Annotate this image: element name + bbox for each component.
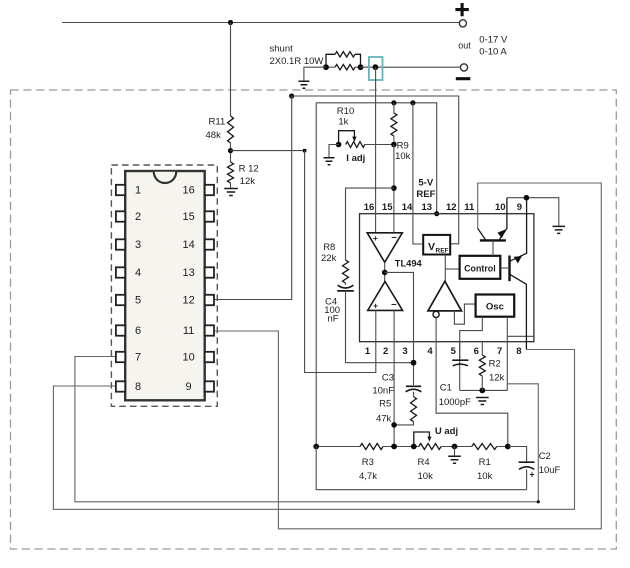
wire amp output to pin 3: [385, 272, 414, 341]
terminal + output: [455, 3, 468, 16]
wire comparator to pin 4: [436, 318, 508, 447]
svg-text:7: 7: [497, 346, 502, 357]
node R9 top: [391, 100, 396, 105]
wire amp2 + to pin 1: [305, 151, 376, 373]
svg-text:6: 6: [474, 346, 479, 357]
wire comp tap to R8: [346, 188, 394, 260]
node amp outputs: [382, 270, 388, 276]
node ground rail: [479, 388, 485, 394]
terminal - output: [460, 64, 467, 71]
svg-text:REF: REF: [416, 189, 435, 200]
svg-text:+: +: [373, 300, 378, 310]
wire bottom return rail: [316, 447, 526, 490]
DIP pin 10 box: [205, 352, 214, 362]
svg-text:R1: R1: [479, 457, 491, 468]
resistor R2: [481, 342, 483, 355]
comparator dead-time: [428, 281, 462, 311]
svg-text:+: +: [373, 233, 378, 243]
node chain left: [313, 444, 319, 450]
svg-text:10k: 10k: [418, 471, 434, 482]
node shunt right: [358, 64, 364, 70]
node R10 left: [336, 142, 342, 148]
svg-text:13: 13: [182, 267, 194, 279]
node divider junction: [228, 148, 233, 153]
svg-text:4: 4: [427, 346, 433, 357]
svg-text:16: 16: [182, 185, 194, 197]
wire amp1 output: [384, 262, 386, 281]
svg-text:C1: C1: [440, 383, 452, 394]
svg-text:14: 14: [402, 202, 413, 213]
svg-text:13: 13: [422, 202, 433, 213]
wire R11 to junction: [230, 143, 232, 162]
wire from top rail to R11: [230, 23, 232, 117]
DIP pin 16 box: [205, 185, 214, 195]
DIP pin 8 box: [116, 381, 125, 391]
svg-text:15: 15: [382, 202, 393, 213]
svg-text:TL494: TL494: [395, 259, 423, 269]
wire ground rail C1 R2: [460, 389, 508, 391]
wire Osc to pin 5: [460, 317, 483, 359]
svg-text:10: 10: [182, 352, 194, 364]
wire Q2 collector to pin 8: [510, 274, 527, 349]
potentiometer R10: [346, 142, 365, 148]
svg-text:5: 5: [451, 346, 457, 357]
wire pin 3 down: [413, 342, 415, 385]
oscillator Osc block: [476, 295, 515, 317]
wiper of R4: [414, 432, 430, 447]
transistor Q1: [480, 239, 506, 241]
wire VREF bottom to Control and comparator: [444, 255, 446, 282]
DIP16 dashed outline: [111, 165, 217, 406]
wire V+ rail to pin 12: [292, 96, 459, 244]
DIP pin 13 box: [205, 267, 214, 277]
DIP pin 15 box: [205, 211, 214, 221]
DIP pin 12 box: [205, 295, 214, 305]
svg-text:1: 1: [365, 346, 371, 357]
ground at pin 7: [476, 398, 489, 405]
ground at emitters: [553, 226, 566, 233]
DIP pin 7 box: [116, 352, 125, 362]
wire bottom chain: [316, 446, 360, 448]
svg-text:48k: 48k: [206, 130, 222, 141]
svg-text:R9: R9: [397, 140, 409, 151]
resistor R9: [393, 103, 395, 113]
svg-text:Control: Control: [464, 264, 496, 274]
svg-text:4,7k: 4,7k: [359, 471, 377, 482]
node compensation tap: [391, 185, 397, 191]
svg-text:12k: 12k: [489, 373, 505, 384]
wire emitters to ground: [507, 198, 559, 226]
regulator VREF box: [423, 235, 450, 255]
capacitor C4: [345, 283, 347, 285]
node R9 / R10: [391, 142, 397, 148]
DIP16 IC body: [125, 171, 205, 400]
DIP pin 11 box: [205, 325, 214, 335]
wire R5 to pin 2 line: [394, 422, 413, 425]
svg-text:12: 12: [182, 295, 194, 307]
wire R10 to ground: [329, 145, 339, 158]
wire V+ to DIP pin 12: [214, 96, 292, 300]
node pin 3 / C4: [411, 360, 417, 366]
resistor shunt lower 0.1R: [326, 66, 335, 68]
wire R12 to ground: [230, 183, 232, 188]
svg-text:4: 4: [135, 267, 141, 279]
wire Vref rail (pin 13): [316, 103, 437, 214]
svg-text:10nF: 10nF: [372, 386, 394, 397]
svg-text:5-V: 5-V: [418, 178, 433, 189]
svg-text:R4: R4: [418, 457, 430, 468]
resistor R11: [228, 116, 234, 143]
wire shunt left to ground: [304, 67, 326, 80]
node R5 / pin2: [391, 422, 397, 428]
wire pin 14 to VREF: [413, 103, 423, 244]
svg-text:shunt: shunt: [270, 44, 294, 55]
wire Q1 base to Control: [492, 240, 494, 255]
node V+ rail corner: [289, 93, 294, 98]
svg-text:R5: R5: [379, 399, 391, 410]
resistor R12: [228, 162, 234, 183]
resistor shunt upper 0.1R: [326, 54, 335, 67]
svg-text:8: 8: [135, 381, 141, 393]
wire divider junction to feedback line: [231, 150, 305, 152]
svg-text:2X0.1R 10W: 2X0.1R 10W: [270, 56, 324, 67]
dashed enclosure border of PSU module: [11, 90, 617, 549]
ground at R10: [324, 158, 335, 165]
svg-text:1k: 1k: [338, 117, 348, 128]
capacitor C2: [508, 447, 527, 462]
capacitor C3: [406, 385, 421, 387]
svg-text:R11: R11: [209, 117, 226, 128]
svg-text:9: 9: [186, 381, 192, 393]
DIP pin 2 box: [116, 211, 125, 221]
DIP pin 14 box: [205, 239, 214, 249]
wire Vref rail down to bottom chain: [315, 103, 317, 447]
svg-text:R8: R8: [323, 242, 335, 253]
DIP pin 4 box: [116, 267, 125, 277]
wire pin 15 line: [393, 145, 395, 233]
ground mid chain: [454, 447, 456, 456]
ground below R12: [224, 189, 238, 196]
op-amp error amplifier 2: [368, 282, 403, 311]
svg-text:47k: 47k: [376, 414, 392, 425]
node feedback tap: [303, 149, 306, 152]
svg-text:10k: 10k: [477, 471, 493, 482]
wire Osc stub to IC edge: [507, 335, 534, 337]
svg-text:3: 3: [135, 239, 141, 251]
svg-text:R2: R2: [489, 359, 501, 370]
svg-text:C2: C2: [539, 451, 551, 462]
wire pin 16 line from current sense to amp1 +: [375, 67, 377, 233]
node pin14 top: [410, 100, 415, 105]
svg-text:5: 5: [135, 295, 141, 307]
node junction top rail / R11: [228, 20, 233, 25]
op-amp error amplifier 1: [367, 233, 402, 262]
wire R10 to R9 bottom: [365, 144, 394, 146]
svg-text:12k: 12k: [240, 176, 256, 187]
svg-text:7: 7: [135, 352, 141, 364]
svg-text:2: 2: [135, 211, 141, 223]
node pin 9 emitter junction: [524, 195, 530, 201]
op-amp U1 TL494 outline: [360, 214, 534, 342]
node R1 right: [505, 444, 511, 450]
node pin2 / R3: [391, 444, 397, 450]
node current sense tap: [373, 64, 379, 70]
svg-text:8: 8: [516, 346, 521, 357]
svg-text:−: −: [391, 233, 397, 244]
svg-text:−: −: [391, 300, 397, 311]
bubble on comparator output: [433, 311, 439, 317]
wire comparator to Osc jog: [454, 304, 475, 324]
DIP pin 3 box: [116, 239, 125, 249]
resistor R8: [343, 260, 349, 283]
DIP pin 9 box: [205, 381, 214, 391]
DIP pin 1 box: [116, 185, 125, 195]
wire Osc right to pin 7: [506, 317, 508, 391]
svg-text:REF: REF: [436, 248, 449, 255]
node pin 13 entry: [434, 211, 439, 216]
node R4 left: [411, 444, 417, 450]
svg-text:0-10 A: 0-10 A: [479, 47, 507, 58]
svg-text:V: V: [428, 241, 435, 253]
svg-text:12: 12: [446, 202, 457, 213]
svg-text:nF: nF: [328, 314, 339, 325]
DIP16 notch: [154, 172, 176, 183]
svg-text:9: 9: [517, 202, 522, 213]
svg-text:22k: 22k: [321, 253, 337, 264]
svg-text:0-17 V: 0-17 V: [479, 35, 508, 46]
svg-text:10k: 10k: [395, 151, 411, 162]
resistor R5: [413, 392, 415, 397]
wire shunt to - terminal: [361, 66, 461, 68]
resistor R3: [360, 444, 383, 450]
svg-text:16: 16: [364, 202, 375, 213]
node R4 right / ground: [452, 444, 458, 450]
svg-text:6: 6: [135, 325, 141, 337]
svg-text:11: 11: [464, 202, 475, 213]
svg-text:Osc: Osc: [486, 302, 505, 313]
wire top V+ rail to + terminal: [62, 22, 459, 24]
node shunt left: [323, 64, 329, 70]
capacitor C1: [459, 342, 461, 391]
wire TL494 pin 8 to DIP pin 8: [53, 350, 574, 510]
svg-text:10uF: 10uF: [539, 465, 561, 476]
potentiometer R4: [419, 444, 441, 450]
ground at shunt: [298, 81, 309, 88]
svg-text:1000pF: 1000pF: [439, 397, 471, 408]
svg-text:1: 1: [135, 185, 141, 197]
svg-text:15: 15: [182, 211, 194, 223]
wire pin 7 to DIP pin 7: [75, 357, 538, 502]
svg-text:C3: C3: [382, 373, 394, 384]
DIP pin 5 box: [116, 295, 125, 305]
current sense highlight box: [369, 57, 383, 80]
svg-text:R 12: R 12: [239, 164, 259, 175]
svg-text:U adj: U adj: [435, 426, 458, 437]
wire pin 11 collector loop: [214, 183, 602, 529]
svg-text:3: 3: [402, 346, 407, 357]
Control block: [460, 256, 501, 279]
transistor Q2: [508, 256, 510, 282]
DIP pin 6 box: [116, 325, 125, 335]
svg-text:2: 2: [383, 346, 388, 357]
svg-text:R3: R3: [362, 457, 374, 468]
wiper of R10: [339, 131, 355, 145]
wire amp2 - to pin 2: [393, 310, 395, 446]
resistor R1: [472, 444, 497, 450]
svg-text:R10: R10: [337, 106, 354, 117]
svg-text:I adj: I adj: [346, 153, 365, 164]
svg-text:+: +: [529, 470, 534, 480]
svg-text:out: out: [458, 41, 471, 51]
wire C4 to pin 3 node: [346, 291, 414, 363]
svg-text:14: 14: [182, 239, 194, 251]
svg-text:10: 10: [495, 202, 506, 213]
svg-text:11: 11: [183, 325, 194, 337]
